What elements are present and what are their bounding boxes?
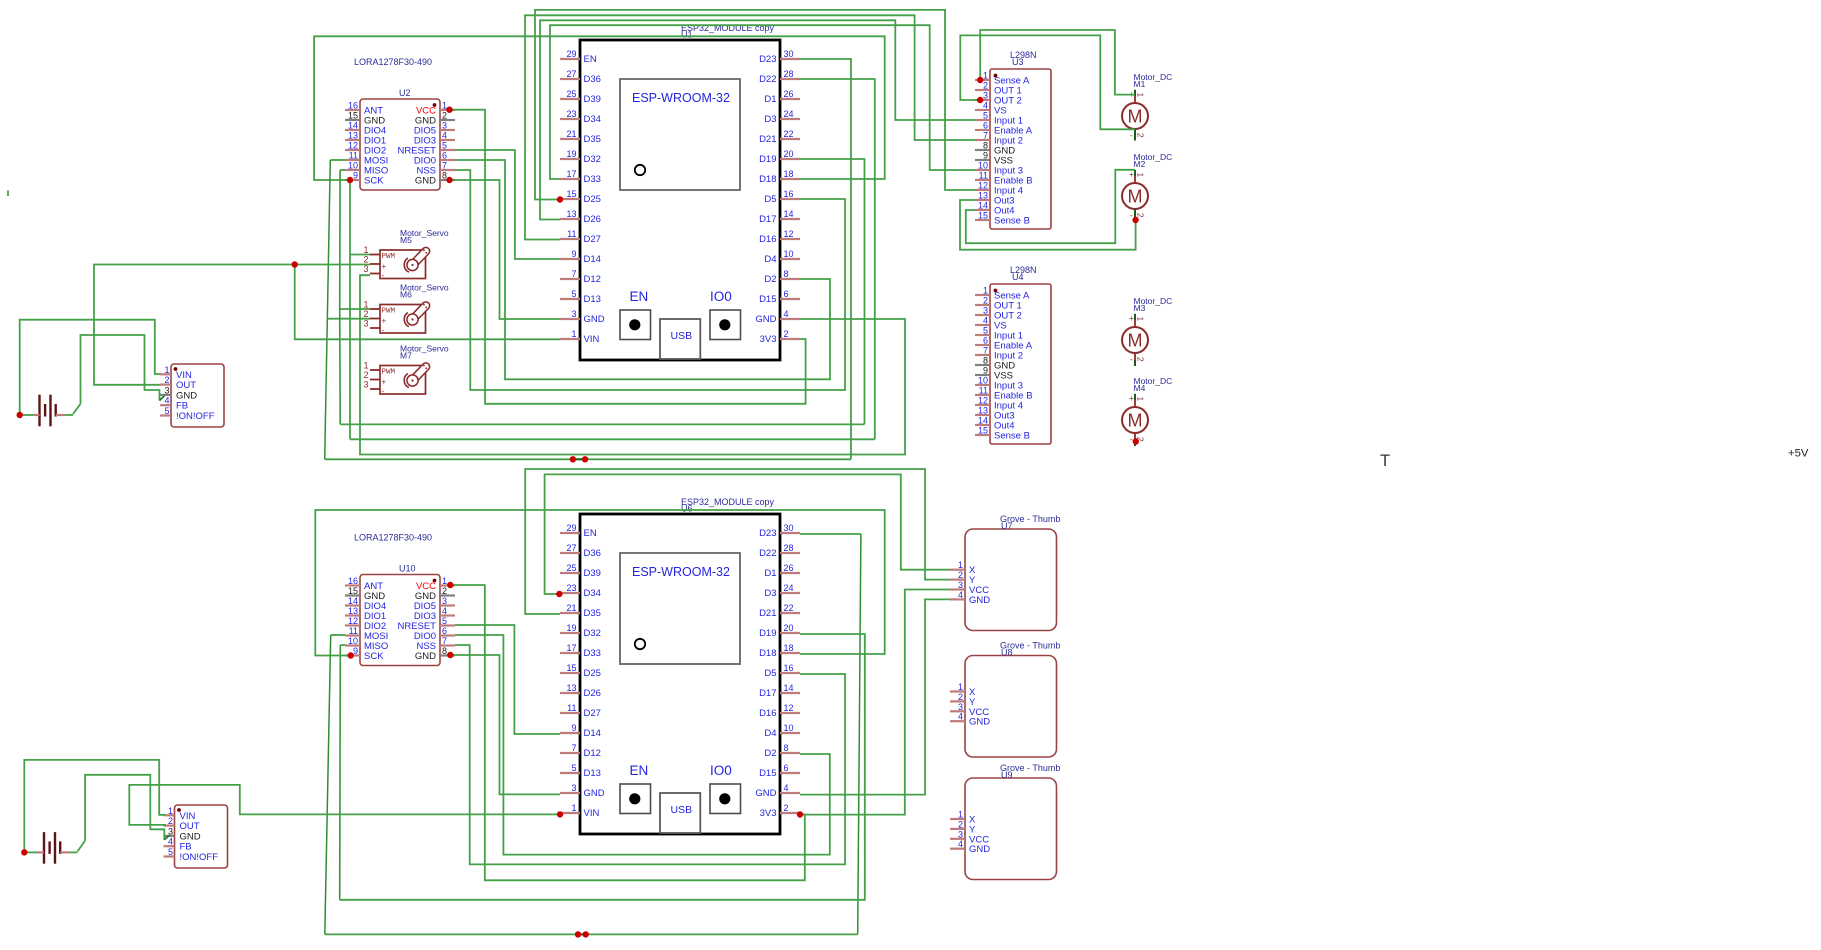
svg-text:1: 1 xyxy=(1136,397,1146,402)
svg-text:11: 11 xyxy=(979,386,988,396)
svg-text:3: 3 xyxy=(442,121,447,131)
svg-text:13: 13 xyxy=(348,606,358,616)
svg-text:10: 10 xyxy=(978,161,988,171)
svg-text:!ON!OFF: !ON!OFF xyxy=(176,411,215,422)
svg-text:8: 8 xyxy=(983,141,988,151)
svg-text:3: 3 xyxy=(983,306,988,316)
svg-text:GND: GND xyxy=(969,844,990,855)
svg-text:4: 4 xyxy=(958,590,963,600)
svg-text:5: 5 xyxy=(571,763,576,773)
svg-text:16: 16 xyxy=(784,663,794,673)
svg-text:4: 4 xyxy=(164,396,169,406)
svg-text:!ON!OFF: !ON!OFF xyxy=(180,852,219,863)
svg-text:+: + xyxy=(1129,393,1134,403)
svg-text:D27: D27 xyxy=(584,708,601,719)
svg-text:4: 4 xyxy=(442,606,447,616)
svg-text:ESP-WROOM-32: ESP-WROOM-32 xyxy=(632,91,730,105)
svg-text:14: 14 xyxy=(978,201,988,211)
svg-text:2: 2 xyxy=(958,819,963,829)
svg-text:-: - xyxy=(1130,354,1133,364)
svg-text:SCK: SCK xyxy=(364,651,384,662)
svg-text:5: 5 xyxy=(983,111,988,121)
svg-text:D25: D25 xyxy=(584,194,601,205)
svg-text:6: 6 xyxy=(784,763,789,773)
svg-text:8: 8 xyxy=(442,171,447,181)
svg-text:GND: GND xyxy=(415,176,436,187)
svg-text:12: 12 xyxy=(348,141,358,151)
svg-text:1: 1 xyxy=(168,806,173,816)
svg-text:U1: U1 xyxy=(681,30,693,40)
svg-text:1: 1 xyxy=(1136,93,1146,98)
svg-text:3V3: 3V3 xyxy=(760,334,777,345)
svg-text:1: 1 xyxy=(363,300,368,310)
svg-text:2: 2 xyxy=(784,329,789,339)
svg-text:EN: EN xyxy=(584,528,597,539)
svg-text:9: 9 xyxy=(983,366,988,376)
svg-text:5: 5 xyxy=(164,406,169,416)
svg-text:7: 7 xyxy=(442,636,447,646)
svg-text:2: 2 xyxy=(1136,133,1146,138)
svg-text:12: 12 xyxy=(978,396,988,406)
svg-text:23: 23 xyxy=(566,109,576,119)
svg-text:ESP-WROOM-32: ESP-WROOM-32 xyxy=(632,565,730,579)
svg-text:7: 7 xyxy=(571,743,576,753)
svg-text:20: 20 xyxy=(784,623,794,633)
svg-text:15: 15 xyxy=(566,663,576,673)
svg-text:6: 6 xyxy=(983,336,988,346)
svg-text:USB: USB xyxy=(671,330,693,342)
svg-text:IO0: IO0 xyxy=(710,763,732,778)
svg-text:D2: D2 xyxy=(764,748,776,759)
svg-text:8: 8 xyxy=(784,269,789,279)
svg-text:5: 5 xyxy=(983,326,988,336)
svg-text:14: 14 xyxy=(784,209,794,219)
svg-text:2: 2 xyxy=(983,296,988,306)
svg-text:14: 14 xyxy=(978,416,988,426)
svg-text:D15: D15 xyxy=(759,768,776,779)
svg-text:M2: M2 xyxy=(1134,159,1146,169)
svg-text:D17: D17 xyxy=(759,688,776,699)
svg-text:M: M xyxy=(1128,107,1143,127)
svg-text:T: T xyxy=(1380,452,1390,470)
svg-text:4: 4 xyxy=(784,309,789,319)
svg-text:D25: D25 xyxy=(584,668,601,679)
svg-text:D16: D16 xyxy=(759,234,776,245)
svg-text:3: 3 xyxy=(442,596,447,606)
svg-text:PWM: PWM xyxy=(382,308,396,316)
svg-text:2: 2 xyxy=(983,81,988,91)
svg-text:6: 6 xyxy=(784,289,789,299)
svg-text:4: 4 xyxy=(958,839,963,849)
svg-text:D13: D13 xyxy=(584,768,601,779)
svg-text:U9: U9 xyxy=(1001,770,1013,780)
svg-text:GND: GND xyxy=(755,788,776,799)
svg-text:3V3: 3V3 xyxy=(760,808,777,819)
svg-text:IO0: IO0 xyxy=(710,289,732,304)
svg-text:D21: D21 xyxy=(759,134,776,145)
svg-text:1: 1 xyxy=(1136,173,1146,178)
svg-text:+5V: +5V xyxy=(1788,448,1809,460)
svg-text:-: - xyxy=(382,271,385,280)
svg-text:14: 14 xyxy=(348,121,358,131)
svg-text:1: 1 xyxy=(164,365,169,375)
svg-text:D2: D2 xyxy=(764,274,776,285)
svg-text:D1: D1 xyxy=(764,568,776,579)
svg-text:3: 3 xyxy=(164,385,169,395)
svg-text:14: 14 xyxy=(348,596,358,606)
svg-text:4: 4 xyxy=(442,131,447,141)
svg-text:D32: D32 xyxy=(584,154,601,165)
svg-text:2: 2 xyxy=(958,570,963,580)
svg-text:25: 25 xyxy=(566,89,576,99)
svg-text:1: 1 xyxy=(1136,317,1146,322)
svg-text:-: - xyxy=(1130,210,1133,220)
svg-text:10: 10 xyxy=(784,249,794,259)
svg-text:D33: D33 xyxy=(584,648,601,659)
svg-text:3: 3 xyxy=(168,826,173,836)
svg-text:LORA1278F30-490: LORA1278F30-490 xyxy=(354,533,432,543)
svg-text:Sense B: Sense B xyxy=(994,431,1030,442)
svg-text:PWM: PWM xyxy=(382,253,396,261)
svg-text:U6: U6 xyxy=(681,504,693,514)
svg-text:D36: D36 xyxy=(584,548,601,559)
svg-text:3: 3 xyxy=(363,264,368,274)
svg-text:27: 27 xyxy=(566,69,576,79)
svg-text:4: 4 xyxy=(168,837,173,847)
svg-text:VIN: VIN xyxy=(584,808,600,819)
svg-text:8: 8 xyxy=(442,646,447,656)
svg-text:GND: GND xyxy=(969,595,990,606)
svg-text:20: 20 xyxy=(784,149,794,159)
svg-text:30: 30 xyxy=(784,49,794,59)
svg-text:10: 10 xyxy=(978,376,988,386)
svg-text:3: 3 xyxy=(958,580,963,590)
svg-text:M4: M4 xyxy=(1134,383,1146,393)
svg-text:D3: D3 xyxy=(764,588,776,599)
svg-text:14: 14 xyxy=(784,683,794,693)
svg-text:13: 13 xyxy=(978,406,988,416)
svg-text:D4: D4 xyxy=(764,254,776,265)
svg-text:D21: D21 xyxy=(759,608,776,619)
svg-text:5: 5 xyxy=(571,289,576,299)
svg-text:6: 6 xyxy=(442,626,447,636)
svg-text:4: 4 xyxy=(983,316,988,326)
svg-text:28: 28 xyxy=(784,543,794,553)
svg-text:15: 15 xyxy=(978,211,988,221)
svg-text:U2: U2 xyxy=(399,88,411,98)
svg-text:22: 22 xyxy=(784,603,794,613)
svg-text:11: 11 xyxy=(979,171,988,181)
svg-text:5: 5 xyxy=(442,141,447,151)
svg-text:GND: GND xyxy=(969,717,990,728)
svg-text:U7: U7 xyxy=(1001,521,1013,531)
svg-text:15: 15 xyxy=(566,189,576,199)
svg-text:26: 26 xyxy=(784,89,794,99)
svg-text:D26: D26 xyxy=(584,688,601,699)
svg-text:23: 23 xyxy=(566,583,576,593)
svg-text:9: 9 xyxy=(571,249,576,259)
svg-text:D1: D1 xyxy=(764,94,776,105)
svg-text:U10: U10 xyxy=(399,564,416,574)
svg-text:D18: D18 xyxy=(759,174,776,185)
svg-text:24: 24 xyxy=(784,583,794,593)
svg-text:D32: D32 xyxy=(584,628,601,639)
svg-text:+: + xyxy=(382,317,387,326)
svg-text:2: 2 xyxy=(363,309,368,319)
svg-text:11: 11 xyxy=(349,626,358,636)
svg-text:2: 2 xyxy=(168,816,173,826)
svg-text:1: 1 xyxy=(983,71,988,81)
svg-text:13: 13 xyxy=(566,683,576,693)
svg-text:D39: D39 xyxy=(584,94,601,105)
svg-text:3: 3 xyxy=(363,380,368,390)
svg-text:ESP32_MODULE copy: ESP32_MODULE copy xyxy=(681,497,775,507)
svg-text:Sense B: Sense B xyxy=(994,216,1030,227)
svg-text:12: 12 xyxy=(784,703,794,713)
svg-text:7: 7 xyxy=(983,131,988,141)
svg-text:18: 18 xyxy=(784,643,794,653)
svg-text:15: 15 xyxy=(978,426,988,436)
svg-text:D16: D16 xyxy=(759,708,776,719)
svg-text:12: 12 xyxy=(784,229,794,239)
svg-text:D4: D4 xyxy=(764,728,776,739)
svg-text:GND: GND xyxy=(584,788,605,799)
svg-text:D17: D17 xyxy=(759,214,776,225)
svg-text:U3: U3 xyxy=(1012,57,1024,67)
svg-text:24: 24 xyxy=(784,109,794,119)
svg-text:D22: D22 xyxy=(759,548,776,559)
svg-text:21: 21 xyxy=(566,603,576,613)
svg-text:26: 26 xyxy=(784,563,794,573)
svg-text:2: 2 xyxy=(363,370,368,380)
svg-text:5: 5 xyxy=(442,616,447,626)
svg-text:VIN: VIN xyxy=(584,334,600,345)
svg-text:1: 1 xyxy=(571,329,576,339)
svg-text:D34: D34 xyxy=(584,588,601,599)
svg-text:1: 1 xyxy=(442,101,447,111)
svg-text:D14: D14 xyxy=(584,728,601,739)
svg-text:PWM: PWM xyxy=(382,369,396,377)
svg-text:EN: EN xyxy=(630,289,649,304)
svg-text:D35: D35 xyxy=(584,608,601,619)
svg-text:16: 16 xyxy=(784,189,794,199)
svg-text:D5: D5 xyxy=(764,668,776,679)
svg-text:1: 1 xyxy=(363,245,368,255)
svg-text:4: 4 xyxy=(784,783,789,793)
svg-text:+: + xyxy=(1129,313,1134,323)
svg-text:9: 9 xyxy=(983,151,988,161)
svg-text:19: 19 xyxy=(566,623,576,633)
svg-text:1: 1 xyxy=(442,576,447,586)
svg-text:-: - xyxy=(1130,434,1133,444)
svg-text:28: 28 xyxy=(784,69,794,79)
svg-text:12: 12 xyxy=(978,181,988,191)
svg-text:4: 4 xyxy=(958,712,963,722)
svg-text:D13: D13 xyxy=(584,294,601,305)
svg-text:13: 13 xyxy=(566,209,576,219)
svg-text:1: 1 xyxy=(983,286,988,296)
svg-text:EN: EN xyxy=(630,763,649,778)
svg-text:D19: D19 xyxy=(759,154,776,165)
svg-text:M7: M7 xyxy=(400,351,412,361)
svg-text:16: 16 xyxy=(348,101,358,111)
svg-text:SCK: SCK xyxy=(364,176,384,187)
svg-text:+: + xyxy=(382,378,387,387)
svg-text:7: 7 xyxy=(571,269,576,279)
svg-text:1: 1 xyxy=(958,810,963,820)
svg-text:12: 12 xyxy=(348,616,358,626)
svg-text:4: 4 xyxy=(983,101,988,111)
svg-text:D26: D26 xyxy=(584,214,601,225)
svg-text:15: 15 xyxy=(348,586,358,596)
svg-text:2: 2 xyxy=(1136,357,1146,362)
svg-text:M3: M3 xyxy=(1134,303,1146,313)
svg-text:D34: D34 xyxy=(584,114,601,125)
svg-text:19: 19 xyxy=(566,149,576,159)
svg-text:1: 1 xyxy=(958,682,963,692)
svg-text:1: 1 xyxy=(363,361,368,371)
svg-text:D33: D33 xyxy=(584,174,601,185)
svg-text:27: 27 xyxy=(566,543,576,553)
svg-text:2: 2 xyxy=(958,692,963,702)
svg-text:D12: D12 xyxy=(584,748,601,759)
svg-text:3: 3 xyxy=(958,829,963,839)
svg-text:D27: D27 xyxy=(584,234,601,245)
svg-text:D35: D35 xyxy=(584,134,601,145)
svg-text:11: 11 xyxy=(349,151,358,161)
svg-text:U4: U4 xyxy=(1012,272,1024,282)
svg-text:6: 6 xyxy=(442,151,447,161)
svg-text:-: - xyxy=(1130,130,1133,140)
svg-text:D18: D18 xyxy=(759,648,776,659)
svg-text:D12: D12 xyxy=(584,274,601,285)
svg-text:2: 2 xyxy=(363,255,368,265)
svg-text:11: 11 xyxy=(567,229,576,239)
svg-text:LORA1278F30-490: LORA1278F30-490 xyxy=(354,57,432,67)
svg-text:M: M xyxy=(1128,187,1143,207)
svg-text:3: 3 xyxy=(363,319,368,329)
svg-text:2: 2 xyxy=(164,375,169,385)
svg-text:1: 1 xyxy=(571,803,576,813)
svg-text:10: 10 xyxy=(348,161,358,171)
svg-text:D19: D19 xyxy=(759,628,776,639)
svg-text:USB: USB xyxy=(671,804,693,816)
svg-text:5: 5 xyxy=(168,847,173,857)
svg-text:3: 3 xyxy=(958,702,963,712)
svg-text:M5: M5 xyxy=(400,235,412,245)
svg-text:17: 17 xyxy=(566,643,576,653)
svg-text:D15: D15 xyxy=(759,294,776,305)
svg-text:U8: U8 xyxy=(1001,647,1013,657)
svg-text:30: 30 xyxy=(784,523,794,533)
svg-text:6: 6 xyxy=(983,121,988,131)
svg-text:16: 16 xyxy=(348,576,358,586)
svg-text:D22: D22 xyxy=(759,74,776,85)
svg-text:GND: GND xyxy=(584,314,605,325)
svg-text:9: 9 xyxy=(571,723,576,733)
svg-text:21: 21 xyxy=(566,129,576,139)
svg-text:2: 2 xyxy=(784,803,789,813)
svg-text:10: 10 xyxy=(348,636,358,646)
svg-text:M6: M6 xyxy=(400,290,412,300)
svg-text:D3: D3 xyxy=(764,114,776,125)
svg-text:8: 8 xyxy=(983,356,988,366)
svg-text:9: 9 xyxy=(353,171,358,181)
svg-text:+: + xyxy=(382,262,387,271)
svg-text:3: 3 xyxy=(983,91,988,101)
svg-text:M1: M1 xyxy=(1134,79,1146,89)
svg-text:29: 29 xyxy=(566,523,576,533)
svg-text:11: 11 xyxy=(567,703,576,713)
svg-text:8: 8 xyxy=(784,743,789,753)
svg-text:13: 13 xyxy=(978,191,988,201)
svg-text:-: - xyxy=(382,387,385,396)
svg-text:3: 3 xyxy=(571,783,576,793)
svg-text:D39: D39 xyxy=(584,568,601,579)
svg-text:13: 13 xyxy=(348,131,358,141)
svg-text:7: 7 xyxy=(983,346,988,356)
svg-text:D14: D14 xyxy=(584,254,601,265)
svg-text:15: 15 xyxy=(348,111,358,121)
svg-text:7: 7 xyxy=(442,161,447,171)
svg-text:D5: D5 xyxy=(764,194,776,205)
svg-text:M: M xyxy=(1128,411,1143,431)
svg-text:3: 3 xyxy=(571,309,576,319)
svg-text:GND: GND xyxy=(415,651,436,662)
svg-text:2: 2 xyxy=(442,111,447,121)
svg-text:M: M xyxy=(1128,331,1143,351)
svg-text:D36: D36 xyxy=(584,74,601,85)
svg-text:17: 17 xyxy=(566,169,576,179)
svg-text:29: 29 xyxy=(566,49,576,59)
svg-text:GND: GND xyxy=(755,314,776,325)
svg-text:D23: D23 xyxy=(759,528,776,539)
svg-text:18: 18 xyxy=(784,169,794,179)
svg-text:EN: EN xyxy=(584,54,597,65)
svg-text:10: 10 xyxy=(784,723,794,733)
svg-text:25: 25 xyxy=(566,563,576,573)
svg-text:1: 1 xyxy=(958,560,963,570)
svg-text:22: 22 xyxy=(784,129,794,139)
svg-text:-: - xyxy=(382,326,385,335)
svg-text:D23: D23 xyxy=(759,54,776,65)
svg-text:2: 2 xyxy=(442,586,447,596)
